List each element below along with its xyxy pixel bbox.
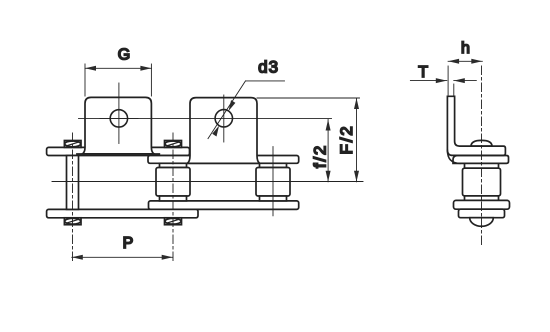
node pin3 centerline xyxy=(272,147,274,216)
component lug K1 right xyxy=(187,98,259,164)
dimension G xyxy=(85,64,151,96)
wire lug1 base line xyxy=(77,153,159,155)
wire bottom outer plate xyxy=(47,209,198,217)
wire lug2 base line xyxy=(183,162,264,164)
component lug K1 left xyxy=(82,97,154,153)
svg-text:d3: d3 xyxy=(258,58,279,77)
node pin2 centerline xyxy=(172,133,174,262)
svg-text:G: G xyxy=(118,47,130,64)
component pin1 head bottom xyxy=(64,218,81,225)
svg-text:T: T xyxy=(418,64,428,81)
node hole1 centerline vertical xyxy=(118,83,120,144)
svg-text:F/2: F/2 xyxy=(337,125,356,155)
node pin1 centerline xyxy=(72,133,74,262)
dimension d3 leader xyxy=(208,81,285,139)
component side bushing bottom xyxy=(465,196,499,201)
component roller2 xyxy=(156,168,190,197)
node hole1 centerline horizontal xyxy=(100,117,138,119)
component pin dome top xyxy=(471,140,492,146)
component side bushing top xyxy=(465,163,499,168)
dimension f/2 xyxy=(257,98,360,182)
component pin1 head top xyxy=(64,141,81,148)
dimension h xyxy=(448,59,482,95)
component hole1 xyxy=(110,110,127,127)
svg-text:h: h xyxy=(461,40,470,57)
node chain-centerline xyxy=(52,181,363,183)
component bushing2 bottom xyxy=(160,196,187,201)
svg-text:P: P xyxy=(123,235,134,252)
node hole2 centerline vertical xyxy=(223,95,225,142)
component hole2 xyxy=(215,110,232,127)
wire top outer plate xyxy=(47,147,190,155)
wire side inner plate top xyxy=(453,156,509,164)
dimension F/2 xyxy=(354,98,359,182)
component pin2 head top xyxy=(165,141,182,148)
component bushing3 top xyxy=(260,163,287,167)
component bushing2 top xyxy=(160,163,187,167)
wire side inner plate bottom xyxy=(454,200,510,209)
wire top inner plate xyxy=(148,156,299,164)
svg-text:f/2: f/2 xyxy=(311,144,330,168)
dimension P xyxy=(72,255,173,260)
component roller3 xyxy=(256,168,290,197)
component bushing3 bottom xyxy=(260,196,287,201)
component pin2 head bottom xyxy=(165,218,182,225)
component pin1 body xyxy=(67,156,79,210)
dimension T xyxy=(410,78,476,96)
node hole-centerline xyxy=(79,117,332,119)
component side roller xyxy=(463,168,501,196)
component bracket L xyxy=(447,96,505,155)
wire side outer plate bottom xyxy=(459,209,505,218)
node side pin centerline xyxy=(481,66,483,246)
wire bottom inner plate xyxy=(149,201,299,210)
component pin dome bottom xyxy=(470,218,494,227)
